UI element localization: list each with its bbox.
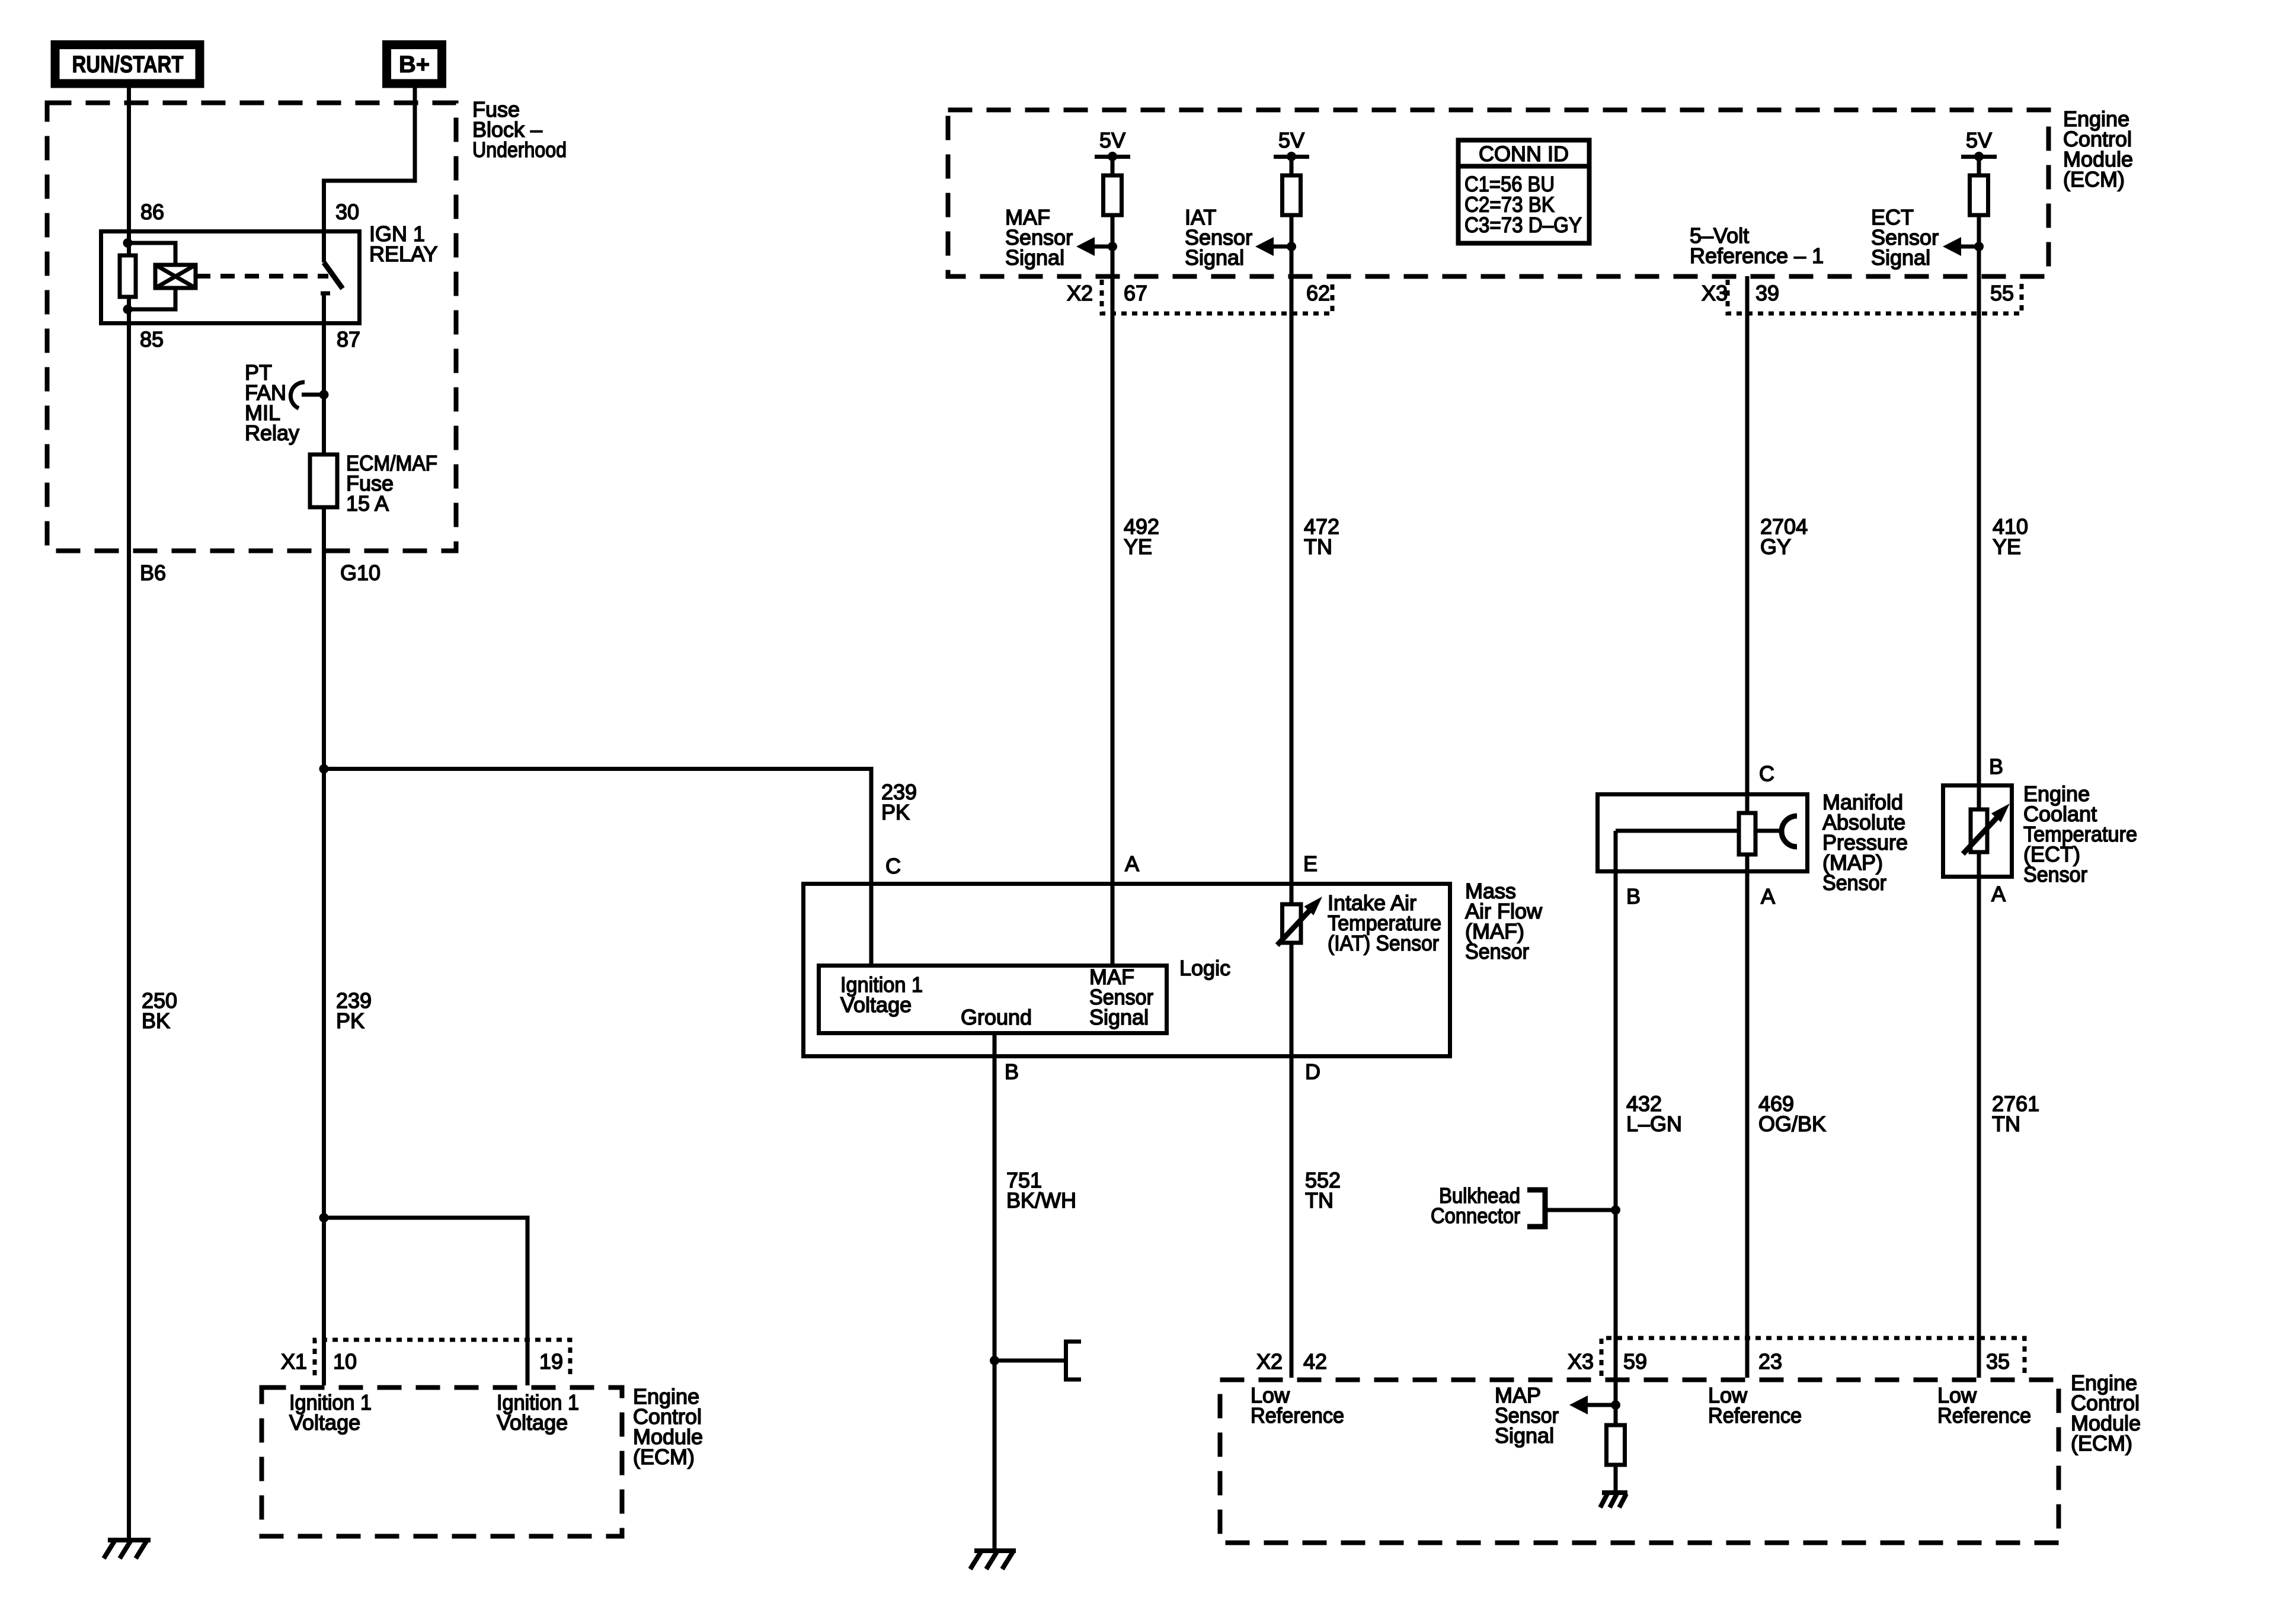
svg-text:86: 86 <box>140 200 164 224</box>
connector stub on ground wire <box>990 1342 1081 1379</box>
fuse ECM/MAF Fuse 15 A <box>310 451 437 516</box>
relay switch fixed contact <box>321 292 330 296</box>
svg-text:OG/BK: OG/BK <box>1758 1112 1826 1136</box>
svg-text:B: B <box>1626 884 1641 908</box>
wire relay 87 down through fuse to ECM pin 10 (circuit 239 PK) <box>322 395 326 1385</box>
svg-text:G10: G10 <box>340 561 380 585</box>
svg-text:19: 19 <box>539 1349 563 1374</box>
wire RUN/START to relay pin 86 then through to ground (circuit 250 BK) <box>127 84 131 1541</box>
svg-text:(ECM): (ECM) <box>2063 167 2125 191</box>
svg-text:Voltage: Voltage <box>497 1410 568 1435</box>
svg-text:5V: 5V <box>1966 128 1992 152</box>
ECM top (Engine Control Module dashed box) <box>948 110 2049 277</box>
svg-text:X2: X2 <box>1256 1349 1283 1374</box>
svg-text:D: D <box>1305 1060 1320 1084</box>
svg-text:Reference: Reference <box>1937 1403 2031 1427</box>
svg-text:23: 23 <box>1758 1349 1782 1374</box>
svg-text:Sensor: Sensor <box>2023 862 2087 886</box>
svg-text:C3=73 D–GY: C3=73 D–GY <box>1464 213 1582 237</box>
svg-text:TN: TN <box>1305 1188 1334 1212</box>
wire 5V reference 2704 GY (pin 39 to MAP C) <box>1745 276 1750 813</box>
svg-text:87: 87 <box>337 327 360 351</box>
junction dot 86 branch top <box>123 238 133 248</box>
svg-text:X3: X3 <box>1702 281 1728 305</box>
junction dot 85 branch bottom <box>123 305 133 314</box>
node B+ (battery feed box) <box>387 45 442 84</box>
relay switch blade <box>324 263 343 289</box>
svg-text:Underhood: Underhood <box>472 137 567 162</box>
svg-text:35: 35 <box>1986 1349 2010 1374</box>
svg-text:C: C <box>1759 761 1774 786</box>
resistor ECT pull-up <box>1977 156 1981 175</box>
connector X1 (ECM bottom left, pins 10/19) <box>281 1340 570 1375</box>
svg-text:GY: GY <box>1760 534 1791 559</box>
wire MAF sensor signal 492 YE (pin 67 to MAF logic) <box>1111 247 1115 964</box>
svg-text:(ECM): (ECM) <box>2071 1431 2132 1455</box>
svg-text:CONN ID: CONN ID <box>1479 142 1569 166</box>
svg-text:Reference: Reference <box>1708 1403 1802 1427</box>
5V supply (ECT pull-up) <box>1961 128 1997 161</box>
wire resistor to IAT signal node <box>1290 215 1294 247</box>
svg-text:PK: PK <box>336 1009 364 1033</box>
svg-text:Signal: Signal <box>1871 245 1930 270</box>
svg-text:C: C <box>885 854 901 878</box>
svg-text:Sensor: Sensor <box>1465 939 1529 964</box>
svg-text:Signal: Signal <box>1005 245 1064 270</box>
resistor MAF pull-up <box>1111 156 1115 175</box>
ground (MAF 751 BK/WH) <box>970 1551 1016 1569</box>
wire IAT low 552 TN (pin D to ECM 42) <box>1290 943 1294 1378</box>
svg-text:BK/WH: BK/WH <box>1006 1188 1076 1212</box>
node MAP Sensor Signal (arrow inside ECM) <box>1495 1383 1620 1448</box>
svg-text:Signal: Signal <box>1495 1423 1554 1448</box>
wire resistor to ECT signal node <box>1977 215 1981 247</box>
svg-text:39: 39 <box>1755 281 1779 305</box>
ground (left, 250 BK) <box>104 1540 151 1558</box>
MAP sensor (Manifold Absolute Pressure sensor box) <box>1598 795 1808 872</box>
relay IGN 1 RELAY (box) <box>101 232 360 324</box>
MAP transducer element <box>1616 813 1797 854</box>
wire ECT low 2761 TN (pin A to ECM 35) <box>1977 852 1981 1378</box>
svg-text:Reference: Reference <box>1251 1403 1344 1427</box>
svg-text:PK: PK <box>881 800 910 824</box>
wire IAT sensor signal 472 TN (pin 62 to IAT sensor) <box>1290 247 1294 907</box>
svg-text:15 A: 15 A <box>346 491 389 516</box>
svg-text:Signal: Signal <box>1089 1005 1149 1029</box>
connector X3 (ECM top, pins 39/55) <box>1702 280 2022 313</box>
svg-text:67: 67 <box>1124 281 1147 305</box>
svg-text:X1: X1 <box>281 1349 307 1374</box>
svg-text:Reference – 1: Reference – 1 <box>1690 244 1824 268</box>
relay coil parallel branch wire <box>128 243 176 265</box>
ECT sensor (Engine Coolant Temperature sensor box) <box>1943 786 2012 877</box>
5V supply (IAT pull-up) <box>1274 128 1309 161</box>
ground (ECM internal) <box>1600 1493 1627 1507</box>
wire MAP low ref 432 L-GN (pin B to ECM 59) <box>1614 831 1618 1405</box>
svg-text:5V: 5V <box>1099 128 1125 152</box>
svg-text:YE: YE <box>1993 534 2021 559</box>
connector X3 (ECM bottom right, pins 59/23/35) <box>1568 1338 2025 1376</box>
svg-text:B+: B+ <box>399 52 430 78</box>
svg-text:Signal: Signal <box>1185 245 1244 270</box>
MAF sensor (Mass Air Flow sensor box) <box>804 884 1450 1057</box>
wire branch ignition to ECM pin 19 <box>324 1218 528 1385</box>
svg-text:B: B <box>1005 1060 1019 1084</box>
svg-text:RUN/START: RUN/START <box>72 52 184 78</box>
svg-text:YE: YE <box>1124 534 1152 559</box>
svg-text:BK: BK <box>142 1009 170 1033</box>
wire MAP 5V ref / 469 OG/BK (pin A to ECM 23) <box>1745 854 1750 1378</box>
node ECT Sensor Signal (arrow into ECM logic) <box>1871 205 1984 270</box>
fuse block - underhood (dashed box) <box>47 103 456 551</box>
svg-text:Ground: Ground <box>961 1005 1032 1029</box>
svg-text:L–GN: L–GN <box>1626 1112 1682 1136</box>
MAF logic box <box>819 966 1167 1033</box>
svg-text:55: 55 <box>1990 281 2014 305</box>
ECM bottom left (Engine Control Module dashed box) <box>262 1388 622 1537</box>
svg-text:B: B <box>1989 754 2003 779</box>
connector stub PT FAN MIL Relay <box>245 360 329 445</box>
svg-text:A: A <box>1761 884 1775 908</box>
wire B+ down and over to relay pin 30 <box>324 84 415 263</box>
resistor MAP pull-down (inside ECM) <box>1614 1405 1618 1425</box>
svg-text:Connector: Connector <box>1431 1204 1520 1228</box>
svg-text:Voltage: Voltage <box>289 1410 360 1435</box>
wire MAF ground 751 BK/WH (pin B to ground) <box>993 1035 997 1551</box>
svg-text:X3: X3 <box>1568 1349 1594 1374</box>
node IAT Sensor Signal (arrow into ECM logic) <box>1185 205 1296 270</box>
svg-text:E: E <box>1303 852 1318 876</box>
svg-text:Logic: Logic <box>1179 956 1230 980</box>
mechanical linkage dashed line <box>196 274 328 279</box>
svg-text:RELAY: RELAY <box>369 242 437 266</box>
svg-text:Relay: Relay <box>245 421 299 445</box>
svg-text:B6: B6 <box>140 561 166 585</box>
svg-text:(IAT) Sensor: (IAT) Sensor <box>1328 931 1439 955</box>
svg-text:TN: TN <box>1992 1112 2020 1136</box>
connector X2 (ECM top, pins 67/62) <box>1067 280 1332 313</box>
relay coil (box with X) <box>155 265 196 288</box>
5V supply (MAF pull-up) <box>1095 128 1130 161</box>
node MAF Sensor Signal (arrow into ECM logic) <box>1005 205 1117 270</box>
svg-text:42: 42 <box>1303 1349 1327 1374</box>
svg-text:A: A <box>1991 882 2006 906</box>
IAT sensor (thermistor with arrow) <box>1277 897 1322 945</box>
svg-text:30: 30 <box>335 200 359 224</box>
junction dot ignition branch <box>319 1213 329 1222</box>
wire branch 239 PK to MAF sensor pin C <box>324 769 872 964</box>
svg-text:Voltage: Voltage <box>840 993 912 1017</box>
ECM bottom right (Engine Control Module dashed box) <box>1220 1380 2059 1543</box>
node RUN/START (power feed box) <box>55 45 200 84</box>
table CONN ID <box>1456 140 1591 244</box>
connector bulkhead on 432 wire <box>1431 1183 1620 1228</box>
svg-text:85: 85 <box>140 327 164 351</box>
svg-text:TN: TN <box>1304 534 1332 559</box>
svg-text:62: 62 <box>1306 281 1330 305</box>
svg-text:(ECM): (ECM) <box>633 1445 695 1469</box>
svg-text:10: 10 <box>333 1349 357 1374</box>
ECT thermistor element <box>1963 804 2010 854</box>
svg-text:59: 59 <box>1623 1349 1647 1374</box>
svg-text:A: A <box>1125 852 1139 876</box>
svg-text:X2: X2 <box>1067 281 1093 305</box>
resistor IAT pull-up <box>1290 156 1294 175</box>
svg-text:5V: 5V <box>1278 128 1304 152</box>
resistor (relay coil suppression) <box>120 255 136 297</box>
wire resistor to MAF signal node <box>1111 215 1115 247</box>
wire ECT signal 410 YE (pin 55 to ECT B) <box>1977 247 1981 809</box>
svg-text:Sensor: Sensor <box>1822 870 1886 895</box>
junction dot 239 branch <box>319 764 329 774</box>
